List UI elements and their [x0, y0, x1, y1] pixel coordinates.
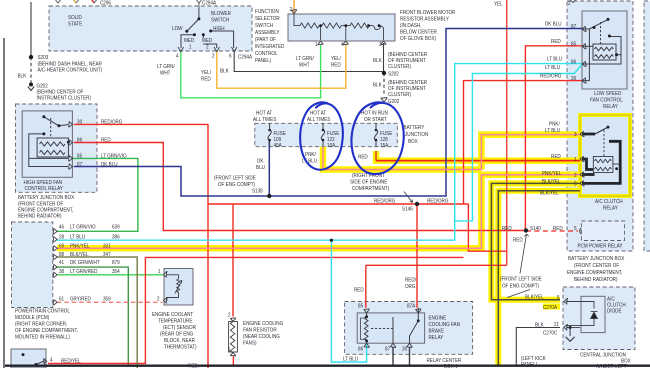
svg-text:CONTROL RELAY: CONTROL RELAY [25, 186, 64, 192]
svg-text:RED/ORG: RED/ORG [101, 119, 123, 125]
svg-text:ASSEMBLY: ASSEMBLY [255, 30, 280, 36]
svg-text:BOX 1: BOX 1 [444, 364, 458, 368]
svg-text:INSTRUMENT CLUSTER): INSTRUMENT CLUSTER) [37, 95, 92, 101]
svg-text:BEHIND RADIATOR): BEHIND RADIATOR) [18, 213, 62, 219]
svg-text:DIODE: DIODE [607, 308, 622, 314]
svg-text:1: 1 [315, 42, 318, 48]
svg-text:30: 30 [77, 119, 82, 125]
svg-text:69: 69 [59, 243, 64, 249]
svg-text:5: 5 [574, 181, 577, 187]
svg-text:5: 5 [574, 226, 577, 232]
svg-text:(FRONT LEFT SIDE: (FRONT LEFT SIDE [500, 276, 542, 282]
svg-text:SELECTOR: SELECTOR [255, 16, 280, 22]
svg-text:30: 30 [402, 346, 407, 352]
svg-text:CENTRAL JUNCTION: CENTRAL JUNCTION [580, 352, 626, 358]
svg-text:88: 88 [59, 252, 64, 258]
svg-text:RED: RED [101, 137, 111, 143]
svg-text:INTEGRATED: INTEGRATED [255, 44, 285, 50]
svg-text:LT GRN/VIO: LT GRN/VIO [70, 224, 96, 230]
svg-text:S138: S138 [252, 188, 263, 194]
svg-text:61: 61 [59, 296, 64, 302]
svg-text:BLK: BLK [220, 68, 229, 74]
svg-text:2: 2 [206, 44, 209, 50]
svg-text:PANEL): PANEL) [255, 58, 272, 64]
svg-text:BLK/YEL: BLK/YEL [540, 190, 559, 196]
svg-text:85: 85 [358, 303, 363, 309]
svg-text:RED: RED [354, 287, 364, 293]
svg-text:RED,: RED, [188, 363, 199, 368]
svg-text:85: 85 [77, 153, 82, 159]
svg-text:HIGH: HIGH [213, 26, 225, 32]
svg-text:RED: RED [201, 76, 211, 82]
svg-text:1: 1 [574, 157, 577, 163]
svg-text:COMPARTMENT): COMPARTMENT) [352, 186, 389, 192]
svg-text:(UNDER LEFT: (UNDER LEFT [596, 364, 626, 368]
svg-text:RED: RED [551, 154, 561, 160]
svg-text:RELAY: RELAY [428, 335, 443, 341]
svg-text:JUNCTION: JUNCTION [405, 132, 429, 138]
svg-text:10A: 10A [327, 143, 336, 149]
svg-text:46: 46 [59, 224, 64, 230]
svg-text:LT BLU: LT BLU [545, 128, 560, 134]
svg-text:RED: RED [331, 62, 341, 68]
svg-text:4: 4 [176, 53, 179, 59]
svg-text:C270A: C270A [543, 305, 558, 311]
svg-text:OR START: OR START [364, 117, 387, 123]
svg-text:RED: RED [358, 154, 368, 160]
svg-text:2: 2 [228, 312, 231, 318]
svg-text:DK BLU: DK BLU [545, 21, 562, 27]
svg-text:21: 21 [554, 322, 559, 328]
svg-text:347: 347 [103, 252, 111, 258]
svg-text:C296: C296 [100, 0, 111, 6]
svg-text:RED: RED [553, 226, 563, 232]
svg-text:BLK: BLK [17, 73, 26, 79]
svg-text:RED/ORG: RED/ORG [374, 198, 396, 204]
svg-text:OF ENG COMPT): OF ENG COMPT) [218, 182, 255, 188]
svg-text:BLK/YEL: BLK/YEL [542, 179, 561, 185]
svg-text:PCM POWER RELAY: PCM POWER RELAY [578, 243, 624, 249]
svg-text:CLUSTER): CLUSTER) [388, 64, 411, 70]
svg-text:40A: 40A [274, 143, 283, 149]
svg-text:SWITCH: SWITCH [255, 23, 273, 29]
svg-text:86: 86 [571, 59, 576, 65]
svg-text:2: 2 [212, 53, 215, 59]
svg-text:BEHIND RADIATOR): BEHIND RADIATOR) [574, 277, 618, 283]
svg-text:LT BLU: LT BLU [547, 56, 562, 62]
svg-text:4: 4 [50, 357, 53, 363]
svg-text:15A: 15A [380, 143, 389, 149]
svg-text:BOX: BOX [408, 139, 418, 145]
svg-text:(FRONT CENTER OF: (FRONT CENTER OF [574, 263, 619, 269]
svg-text:STATE: STATE [68, 21, 83, 27]
svg-text:85: 85 [571, 41, 576, 47]
svg-text:CLUSTER): CLUSTER) [388, 92, 411, 98]
svg-text:WHT: WHT [299, 62, 309, 68]
svg-text:ORG: ORG [405, 284, 416, 290]
svg-text:A/C-HEATER CONTROL UNIT): A/C-HEATER CONTROL UNIT) [37, 67, 102, 73]
svg-text:LT BLU: LT BLU [343, 356, 358, 362]
svg-text:1: 1 [189, 44, 192, 50]
svg-text:RED/ORG: RED/ORG [427, 198, 449, 204]
svg-text:C270C: C270C [543, 330, 558, 336]
svg-text:MOUNTED IN FIREWALL): MOUNTED IN FIREWALL) [15, 334, 70, 340]
svg-text:BLK: BLK [373, 82, 382, 88]
svg-text:6: 6 [557, 295, 560, 301]
svg-text:FANS): FANS) [243, 340, 257, 346]
svg-text:ALL TIMES: ALL TIMES [307, 117, 331, 123]
svg-text:OF ENG COMPT): OF ENG COMPT) [502, 283, 539, 289]
svg-text:RELAY: RELAY [603, 205, 618, 211]
svg-text:RED: RED [551, 39, 561, 45]
svg-text:386: 386 [112, 234, 120, 240]
svg-text:S140: S140 [530, 226, 541, 232]
svg-text:BLK/YEL: BLK/YEL [70, 252, 89, 258]
svg-text:1: 1 [158, 269, 161, 275]
svg-text:1: 1 [228, 347, 231, 353]
svg-text:41: 41 [59, 260, 64, 266]
svg-text:LT BLU: LT BLU [545, 65, 560, 71]
svg-text:28: 28 [59, 234, 64, 240]
svg-text:354: 354 [112, 269, 120, 275]
svg-text:C294A: C294A [238, 54, 253, 60]
svg-text:ENGINE COMPARTMENT,: ENGINE COMPARTMENT, [567, 270, 622, 276]
svg-text:CONTROL: CONTROL [255, 51, 278, 57]
svg-text:LT BLU: LT BLU [70, 234, 85, 240]
svg-text:S202: S202 [388, 71, 399, 77]
svg-text:2: 2 [574, 173, 577, 179]
svg-text:RED: RED [502, 226, 512, 232]
svg-text:WHT: WHT [160, 70, 170, 76]
svg-text:87: 87 [385, 346, 390, 352]
svg-text:86: 86 [77, 137, 82, 143]
svg-text:C294A: C294A [202, 0, 217, 6]
svg-text:30: 30 [571, 76, 576, 82]
svg-text:2: 2 [157, 296, 160, 302]
svg-text:879: 879 [112, 260, 120, 266]
svg-text:DK GRN/WHT: DK GRN/WHT [70, 260, 100, 266]
svg-text:RED/YEL: RED/YEL [61, 358, 81, 364]
svg-text:87: 87 [77, 161, 82, 167]
svg-text:OF GLOVE BOX): OF GLOVE BOX) [400, 36, 436, 42]
svg-text:BATTERY JUNCTION BOX: BATTERY JUNCTION BOX [568, 256, 625, 262]
svg-text:ALL TIMES: ALL TIMES [253, 117, 277, 123]
svg-text:RED/ORG: RED/ORG [540, 73, 562, 79]
svg-text:BLK: BLK [373, 58, 382, 64]
svg-text:THERMOSTAT): THERMOSTAT) [164, 344, 197, 350]
svg-text:PANEL): PANEL) [521, 362, 538, 368]
svg-text:RED: RED [513, 237, 523, 243]
svg-text:SWITCH: SWITCH [211, 17, 229, 23]
svg-text:BLK/YEL: BLK/YEL [525, 294, 544, 300]
svg-text:DK BLU: DK BLU [101, 161, 118, 167]
svg-text:639: 639 [112, 224, 120, 230]
svg-text:BATTERY: BATTERY [404, 125, 425, 131]
svg-text:359: 359 [103, 296, 111, 302]
svg-text:86: 86 [358, 346, 363, 352]
svg-text:LT GRN/RED: LT GRN/RED [70, 269, 98, 275]
svg-text:3: 3 [574, 132, 577, 138]
svg-text:FUNCTION: FUNCTION [255, 9, 279, 15]
svg-text:BLK: BLK [535, 322, 544, 328]
svg-text:PNK/YEL: PNK/YEL [542, 171, 562, 177]
svg-text:87A: 87A [407, 303, 416, 309]
svg-text:331: 331 [103, 243, 111, 249]
svg-text:2: 2 [289, 7, 292, 13]
svg-text:3: 3 [379, 42, 382, 48]
svg-text:LT GRN/VIO: LT GRN/VIO [101, 153, 127, 159]
svg-text:RELAY: RELAY [603, 104, 618, 110]
svg-text:4: 4 [341, 42, 344, 48]
svg-text:BLU: BLU [256, 165, 265, 171]
svg-text:38: 38 [59, 269, 64, 275]
svg-text:87: 87 [571, 24, 576, 30]
svg-text:2: 2 [568, 1, 571, 7]
svg-text:6: 6 [229, 53, 232, 59]
svg-text:LOW: LOW [172, 26, 183, 32]
svg-text:YEL: YEL [494, 1, 503, 7]
svg-text:PNK/YEL: PNK/YEL [70, 243, 90, 249]
svg-text:GRY/RED: GRY/RED [70, 296, 91, 302]
svg-text:S146: S146 [402, 206, 413, 212]
svg-text:(PART OF: (PART OF [255, 37, 276, 43]
